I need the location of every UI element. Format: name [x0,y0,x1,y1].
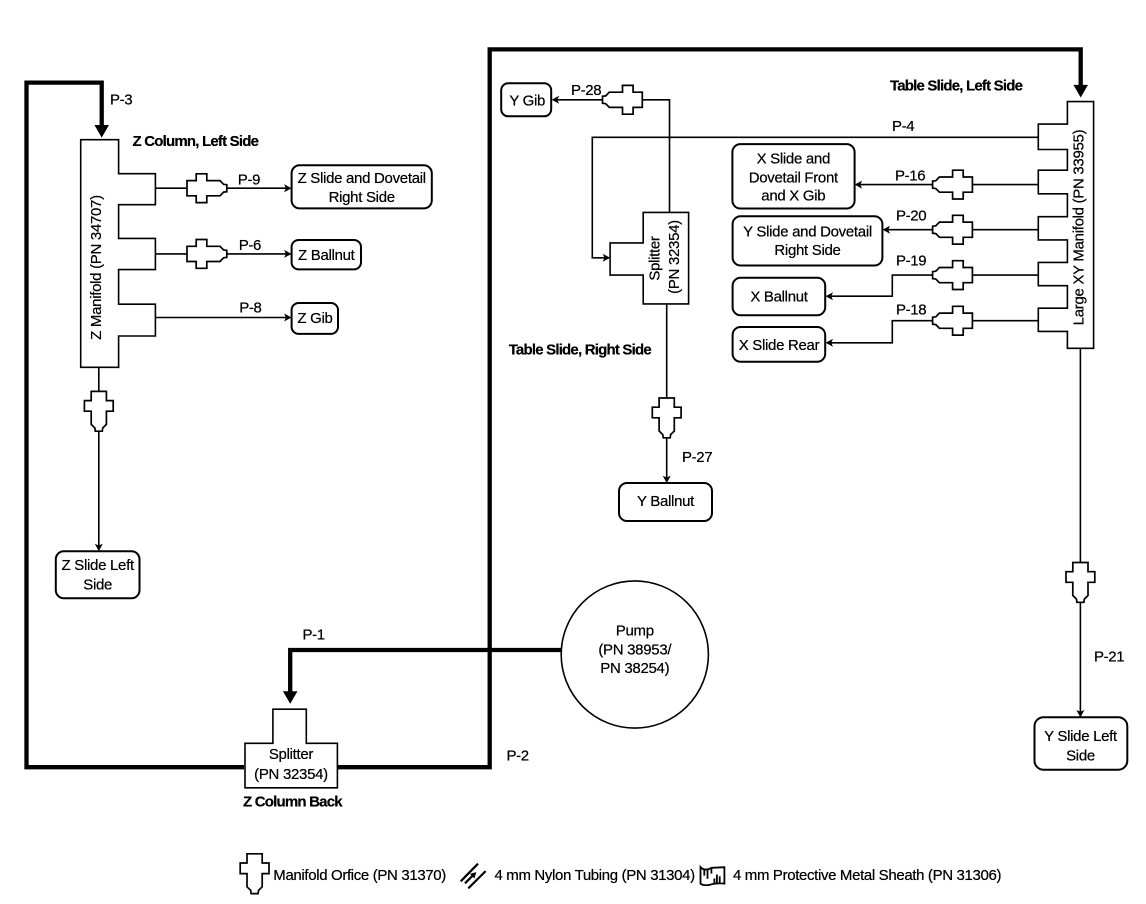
orifice on P-20 [933,215,973,244]
legend tubing icon [461,864,486,889]
arrowhead P-20 [883,226,890,234]
svg-text:P-18: P-18 [896,302,926,319]
wire P-21 from XY manifold bottom to Y Slide Left Side [1079,348,1081,716]
svg-text:Z Slide and Dovetail: Z Slide and Dovetail [298,170,426,187]
svg-text:P-28: P-28 [571,82,601,99]
svg-text:Z Column, Left Side: Z Column, Left Side [133,133,259,150]
orifice on P-16 [933,170,973,199]
svg-text:Y Slide and Dovetail: Y Slide and Dovetail [743,224,872,241]
svg-text:Pump: Pump [616,623,654,640]
box Z Ballnut [292,240,361,269]
wire P-18 [827,321,1038,343]
arrowhead P-2 [1073,85,1088,98]
Large XY Manifold (PN 33955) [1038,102,1093,349]
svg-text:P-20: P-20 [896,207,926,224]
arrowhead P-28 into Y Gib [552,96,559,104]
arrowhead P-16 [855,181,862,189]
wire P-27 from splitter S2 bottom to Y Ballnut [666,304,668,482]
wire P-4 from XY manifold to splitter S2 left tab [592,137,1038,257]
wire P-1 thick pipe from pump to splitter S1 [290,650,600,692]
svg-text:Side: Side [1066,748,1095,765]
svg-text:P-3: P-3 [110,92,132,109]
svg-text:Y Ballnut: Y Ballnut [637,493,695,510]
orifice on P-28 [603,85,643,114]
svg-text:X Slide and: X Slide and [757,151,830,168]
svg-text:Right Side: Right Side [774,242,840,259]
wire P-6 [155,253,290,255]
svg-text:P-2: P-2 [507,748,529,765]
svg-text:Manifold Orfice (PN 31370): Manifold Orfice (PN 31370) [273,867,446,884]
arrowhead P-4 into splitter tab [603,254,610,262]
wire P-19 [827,275,1038,296]
box Z Slide and Dovetail Right Side [292,165,432,208]
svg-text:P-6: P-6 [239,237,261,254]
box Y Slide Left Side [1035,717,1128,770]
svg-text:Z Ballnut: Z Ballnut [298,247,356,264]
wire P-16 [856,184,1038,186]
svg-text:Large XY Manifold (PN 33955): Large XY Manifold (PN 33955) [1071,129,1088,325]
arrowhead P-21 into Y Slide Left Side [1076,710,1084,717]
svg-text:(PN 38953/: (PN 38953/ [598,641,672,658]
wire P-2 thick pipe from splitter S1 right up and over to XY manifold [338,49,1081,767]
arrowhead P-8 into box [284,314,291,322]
orifice on P-9 [187,174,227,203]
svg-text:P-16: P-16 [895,168,925,185]
svg-text:Z Gib: Z Gib [297,310,332,327]
svg-text:and X Gib: and X Gib [761,188,825,205]
svg-text:(PN 32354): (PN 32354) [666,220,683,294]
arrowhead P-6 into box [284,250,291,258]
svg-text:(PN 32354): (PN 32354) [254,766,328,783]
svg-text:Dovetail Front: Dovetail Front [749,169,839,186]
arrowhead Z slide down [95,544,103,551]
arrowhead P-19 [826,292,833,300]
svg-text:Z Column Back: Z Column Back [243,794,343,811]
pump [561,581,708,728]
orifice on P-6 [187,240,227,269]
svg-text:P-21: P-21 [1094,649,1124,666]
svg-text:P-8: P-8 [239,299,261,316]
legend orifice icon [240,854,269,894]
box Z Gib [292,303,338,334]
svg-text:X Slide Rear: X Slide Rear [739,337,820,354]
svg-text:P-19: P-19 [896,253,926,270]
box Y Gib [501,83,551,116]
svg-text:Table Slide, Left Side: Table Slide, Left Side [890,78,1023,95]
orifice on P-19 [933,261,973,290]
svg-text:P-27: P-27 [682,449,712,466]
svg-text:Right Side: Right Side [329,189,395,206]
svg-text:X Ballnut: X Ballnut [750,288,808,305]
svg-text:Y Slide Left: Y Slide Left [1044,728,1118,745]
legend sheath icon [701,867,725,885]
box Y Slide and Dovetail Right Side [733,216,883,265]
wire P-28 from splitter S2 top to Y Gib [554,100,670,213]
svg-text:Splitter: Splitter [647,236,664,281]
arrowhead P-1 [283,691,298,704]
wire P-8 [155,317,290,319]
svg-text:P-9: P-9 [238,172,260,189]
arrowhead P-27 into Y Ballnut [663,476,671,483]
orifice on P-18 [933,306,973,335]
svg-text:PN 38254): PN 38254) [600,660,669,677]
svg-text:P-1: P-1 [303,627,325,644]
svg-text:4 mm Protective Metal Sheath (: 4 mm Protective Metal Sheath (PN 31306) [733,867,1001,884]
arrowhead P-3 [94,125,109,138]
svg-text:Table Slide, Right Side: Table Slide, Right Side [509,341,652,358]
splitter S1 (Z Column Back) [245,709,337,788]
svg-text:Y Gib: Y Gib [509,93,545,110]
arrowhead P-9 into box [284,184,291,192]
orifice below Z manifold [84,391,113,431]
wire P-3 thick pipe from splitter S1 left around to Z manifold top [27,83,245,768]
orifice on P-21 [1066,563,1095,603]
svg-text:Z Slide Left: Z Slide Left [62,557,135,574]
box Y Ballnut [619,483,712,521]
box X Slide Rear [733,327,826,362]
svg-text:Side: Side [83,576,112,593]
svg-text:Z Manifold (PN 34707): Z Manifold (PN 34707) [88,195,105,340]
arrowhead P-18 [826,339,833,347]
wire Z manifold down to Z Slide Left Side [98,367,100,550]
box X Ballnut [733,278,826,316]
splitter S2 (table slide) [610,212,689,304]
orifice on P-27 [652,398,681,438]
svg-text:Splitter: Splitter [269,746,314,763]
svg-text:P-4: P-4 [892,118,914,135]
box Z Slide Left Side [56,551,140,598]
wire P-20 [884,229,1038,231]
box X Slide and Dovetail Front and X Gib [732,144,854,208]
svg-text:4 mm Nylon Tubing (PN 31304): 4 mm Nylon Tubing (PN 31304) [495,867,696,884]
wire P-9 [155,187,290,189]
Z Manifold (PN 34707) [81,140,156,368]
